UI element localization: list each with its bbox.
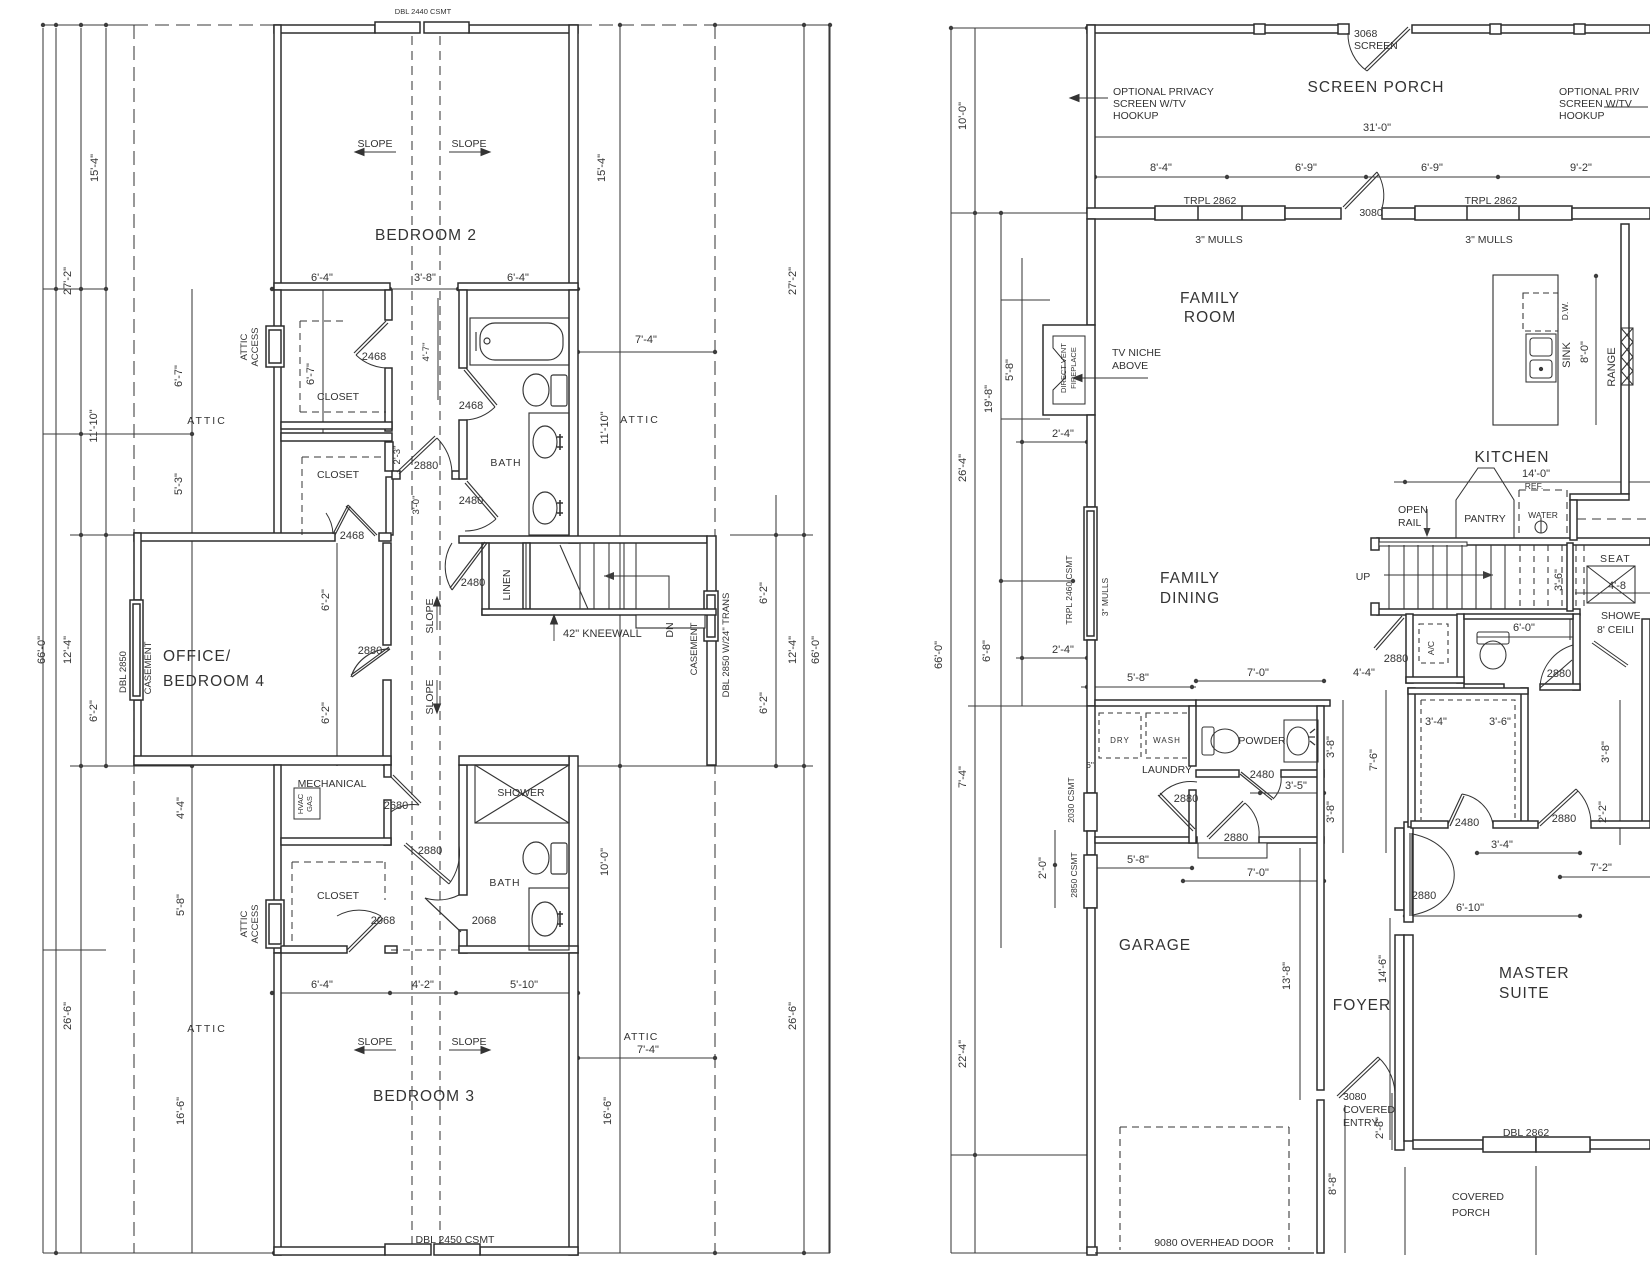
svg-text:26'-6": 26'-6" [62, 1002, 74, 1030]
dim line 4'-7" bath1 [437, 298, 439, 400]
porch posts [1254, 24, 1265, 34]
linen right wall [523, 543, 530, 609]
svg-text:HOOKUP: HOOKUP [1559, 110, 1605, 122]
DW dashed [1523, 293, 1558, 331]
svg-text:3'-4": 3'-4" [1425, 716, 1447, 728]
wall bath2 bottom [459, 946, 578, 953]
svg-text:LAUNDRY: LAUNDRY [1142, 764, 1192, 776]
dim line 27'-2"/26'-6" left [55, 28, 57, 1253]
door 3080 family [1343, 172, 1377, 207]
svg-text:PORCH: PORCH [1452, 1207, 1490, 1219]
row y137 31'-0" [1095, 136, 1650, 138]
door 2880 office right [351, 649, 390, 677]
row y993 bed3 dims [272, 992, 578, 994]
door 2468 closet1 leaf [356, 323, 388, 355]
master bath right wall [1642, 619, 1650, 822]
dim line R 19'-8/6'-8 [1000, 213, 1002, 948]
hall wall stub left [392, 471, 400, 479]
window DBL 2440 csmt bed2 top [375, 22, 420, 33]
svg-text:19'-8": 19'-8" [983, 385, 995, 413]
roof overhang dashed right [714, 25, 716, 1253]
svg-text:2468: 2468 [340, 530, 364, 542]
garage overhead door sill [1095, 1252, 1314, 1254]
wall bed2 right [569, 25, 578, 289]
open rail down arrow [1426, 509, 1428, 535]
hall lower dashed threshold [391, 949, 459, 951]
range [1621, 328, 1633, 385]
svg-text:12'-4": 12'-4" [62, 636, 74, 664]
shower bath2 [475, 765, 569, 823]
svg-text:TRPL 2862: TRPL 2862 [1184, 195, 1237, 207]
stair left cap R [1371, 538, 1379, 550]
svg-text:OPTIONAL PRIV: OPTIONAL PRIV [1559, 86, 1639, 98]
wall bed3 left [274, 953, 281, 1255]
garage slab dashed [1120, 1127, 1289, 1250]
svg-text:ACCESS: ACCESS [250, 904, 261, 943]
svg-text:GARAGE: GARAGE [1119, 937, 1191, 954]
LEFT PLAN FIXTURES [294, 318, 569, 950]
svg-text:SLOPE: SLOPE [424, 598, 436, 633]
door 2880 wc right [1540, 660, 1572, 688]
svg-text:5'-3": 5'-3" [173, 473, 185, 495]
svg-text:6'-4": 6'-4" [311, 979, 333, 991]
wall closet2 top [281, 433, 392, 441]
row y793 3'-5" [1250, 792, 1324, 794]
svg-text:2880: 2880 [414, 460, 438, 472]
porch left wall [1087, 25, 1095, 213]
kitchen right wall [1621, 224, 1629, 494]
A/C closet left wall [1406, 614, 1413, 683]
svg-text:6'-2": 6'-2" [758, 582, 770, 604]
vert dim 2'-8" [1391, 1093, 1393, 1150]
row y177 window dims [1095, 176, 1650, 178]
svg-text:2480: 2480 [459, 495, 483, 507]
svg-text:CLOSET: CLOSET [317, 890, 360, 902]
dim line 12'-4" left [80, 28, 82, 1253]
svg-text:8' CEILI: 8' CEILI [1597, 624, 1634, 636]
svg-text:4'-8: 4'-8 [1608, 580, 1626, 592]
svg-text:14'-6": 14'-6" [1377, 955, 1389, 983]
slope arrow bed2 right [449, 151, 490, 153]
svg-text:2'-3": 2'-3" [392, 446, 403, 465]
row y948 closet bottom [43, 949, 106, 951]
wic top wall [1408, 688, 1528, 694]
slope arrow bed3 right [449, 1049, 490, 1051]
svg-text:3'-6": 3'-6" [1553, 569, 1565, 591]
laundry appliances dashed [1099, 713, 1189, 758]
stair treads [525, 543, 527, 609]
row y853 3'-4" [1477, 852, 1580, 854]
svg-text:2068: 2068 [371, 915, 395, 927]
powder sink [1284, 720, 1318, 762]
svg-text:SLOPE: SLOPE [357, 1036, 392, 1048]
svg-text:10'-0": 10'-0" [599, 848, 611, 876]
kitchen island [1493, 275, 1558, 425]
dashed ceiling break line [1577, 518, 1650, 520]
svg-text:ATTIC: ATTIC [620, 414, 660, 426]
svg-text:A/C: A/C [1426, 641, 1436, 655]
open rail line [1379, 542, 1467, 546]
wall between windows [1087, 831, 1095, 855]
laundry door arc [1159, 782, 1197, 796]
svg-text:2880: 2880 [1174, 793, 1198, 805]
svg-text:3080: 3080 [1359, 207, 1383, 219]
attic access hatch upper [266, 326, 284, 367]
screen door 3068 [1367, 29, 1410, 71]
svg-text:OPTIONAL PRIVACY: OPTIONAL PRIVACY [1113, 86, 1214, 98]
svg-text:CLOSET: CLOSET [317, 391, 360, 403]
wall mech right lower [384, 800, 391, 845]
svg-text:16'-6": 16'-6" [175, 1097, 187, 1125]
slope arrow stair hall (rot) [436, 597, 438, 630]
dim line R 5'-8 [1021, 258, 1023, 706]
svg-text:DRY: DRY [1110, 736, 1130, 745]
svg-text:DBL 2850 W/24" TRANS: DBL 2850 W/24" TRANS [721, 593, 732, 698]
svg-text:RANGE: RANGE [1606, 347, 1618, 386]
svg-text:2030 CSMT: 2030 CSMT [1066, 777, 1076, 822]
master top wall seg2 [1493, 821, 1538, 828]
svg-text:4'-4": 4'-4" [1353, 667, 1375, 679]
foyer right wall mid [1395, 935, 1404, 1150]
HVAC GAS box [294, 788, 320, 819]
svg-text:2'-4": 2'-4" [1052, 644, 1074, 656]
wall office top right of door [379, 533, 391, 541]
garage left wall [1087, 908, 1095, 1253]
family room top wall seg3 [1382, 208, 1415, 219]
wic left wall [1408, 688, 1415, 827]
svg-text:5'-8": 5'-8" [1004, 359, 1016, 381]
svg-text:ABOVE: ABOVE [1112, 360, 1148, 372]
svg-text:4'-2": 4'-2" [412, 979, 434, 991]
wic dashed shelving [1421, 700, 1515, 820]
dim line 6'-2" right pair [775, 495, 777, 766]
row y766 office bottom level [70, 765, 192, 767]
svg-text:27'-2": 27'-2" [62, 267, 74, 295]
svg-text:6'-10": 6'-10" [1456, 902, 1484, 914]
door 2880 hall2 [404, 845, 449, 884]
LEFT PLAN WALLS [130, 22, 718, 1255]
row y877 7'-2" [1560, 876, 1650, 878]
family room left wall below fireplace [1087, 415, 1095, 507]
slope arrow office low (rot) [436, 680, 438, 713]
RIGHT PLAN fixtures [1099, 293, 1633, 1250]
garage top wall seg2 [1259, 837, 1324, 843]
hall wall stub right [452, 471, 460, 479]
wall closet1 bottom [281, 422, 392, 429]
row y681 7'-0" top [1196, 680, 1324, 682]
kitchen nook wall vert [1570, 500, 1577, 540]
svg-text:D.W.: D.W. [1560, 302, 1570, 320]
vert dim 14'-6" [1389, 918, 1391, 1140]
door 2880 to AC hall [1376, 618, 1404, 650]
svg-text:7'-6": 7'-6" [1368, 749, 1380, 771]
door 2880 foyer/master [1409, 833, 1411, 916]
dim line R outermost [828, 24, 830, 1253]
door 2880 master [1538, 789, 1576, 824]
svg-text:8'-8": 8'-8" [1327, 1173, 1339, 1195]
door 2468 closet2 leaf [333, 505, 348, 534]
row y706 laundry top level [968, 705, 1087, 707]
svg-text:15'-4": 15'-4" [596, 154, 608, 182]
row y289 bed2 bottom level [43, 288, 106, 290]
RIGHT PLAN WALLS [1043, 24, 1650, 1255]
svg-text:LINEN: LINEN [501, 570, 513, 601]
svg-text:2'-2": 2'-2" [1597, 801, 1609, 823]
svg-text:DBL 2850: DBL 2850 [118, 651, 129, 693]
svg-text:2480: 2480 [1455, 817, 1479, 829]
laundry/garage wall seg1 [1095, 837, 1197, 843]
svg-text:8'-4": 8'-4" [1150, 162, 1172, 174]
toilet bath1 [551, 375, 567, 406]
water heater dashed closet [1519, 490, 1567, 535]
svg-text:2068: 2068 [472, 915, 496, 927]
wall below window to laundry [1087, 640, 1095, 706]
svg-text:2880: 2880 [1224, 832, 1248, 844]
toilet powder [1202, 727, 1214, 755]
svg-text:FOYER: FOYER [1333, 997, 1391, 1014]
svg-text:SUITE: SUITE [1499, 985, 1550, 1002]
wc bottom wall segs [1464, 684, 1504, 690]
vert dim 3'-8"/2'-2" right [1619, 700, 1621, 845]
svg-text:3'-0": 3'-0" [411, 496, 422, 515]
row y434 closet level [43, 433, 134, 435]
window TRPL 2460 CSMT [1084, 507, 1097, 640]
svg-text:SLOPE: SLOPE [424, 679, 436, 714]
svg-text:7'-2": 7'-2" [1590, 862, 1612, 874]
svg-text:3'-8": 3'-8" [414, 272, 436, 284]
svg-text:7'-4": 7'-4" [637, 1044, 659, 1056]
RIGHT PLAN doors [1158, 27, 1591, 1098]
svg-text:6'-9": 6'-9" [1295, 162, 1317, 174]
svg-text:22'-4": 22'-4" [957, 1040, 969, 1068]
A/C closet right wall [1457, 614, 1464, 683]
RIGHT PLAN ticks [949, 26, 1598, 1157]
shower glass diag [1594, 641, 1628, 665]
svg-text:BATH: BATH [489, 877, 520, 889]
row y881 7'-0" bottom [1183, 880, 1324, 882]
wc/powder2 right wall [1573, 614, 1580, 690]
svg-text:RAIL: RAIL [1398, 517, 1422, 529]
master left wall [1404, 822, 1413, 922]
dim line 4'-8" seat [1575, 592, 1650, 594]
svg-text:OFFICE/: OFFICE/ [163, 648, 231, 665]
wall closet3 bottom [281, 946, 347, 953]
closet3 shelf dashes [292, 862, 385, 946]
family room top wall seg2 [1285, 208, 1341, 219]
svg-text:CASEMENT: CASEMENT [143, 641, 154, 694]
window TRPL 2862 left group [1155, 206, 1285, 220]
svg-text:BEDROOM 4: BEDROOM 4 [163, 673, 265, 690]
door 2068 bath2 [425, 898, 459, 930]
wall closet1 right lower [385, 368, 392, 431]
door 2680 mech [391, 777, 419, 805]
svg-text:2880: 2880 [1547, 668, 1571, 680]
svg-text:TV NICHE: TV NICHE [1112, 347, 1161, 359]
svg-text:6'-7": 6'-7" [173, 365, 185, 387]
LEFT PLAN TEXT [36, 7, 822, 1246]
wall closet left (upper) [274, 290, 281, 535]
LEFT PLAN closet dashed shelving [292, 321, 459, 950]
svg-text:7'-0": 7'-0" [1247, 667, 1269, 679]
powder/foyer left wall [1317, 706, 1324, 1090]
svg-text:3" MULLS: 3" MULLS [1465, 234, 1513, 246]
wall bed2 top left segment [274, 25, 375, 33]
family room top wall seg1 [1087, 208, 1155, 219]
dim line 66'-0" left [42, 28, 44, 1253]
svg-text:MASTER: MASTER [1499, 965, 1570, 982]
svg-text:5'-10": 5'-10" [510, 979, 538, 991]
door 2880 hall/bed2 leaf [399, 438, 437, 474]
svg-text:CLOSET: CLOSET [317, 469, 360, 481]
optional privacy arrow right [1604, 106, 1648, 108]
svg-text:14'-0": 14'-0" [1522, 468, 1550, 480]
svg-text:FAMILY: FAMILY [1180, 290, 1240, 307]
svg-text:BATH: BATH [490, 457, 521, 469]
tv niche arrow [1073, 377, 1148, 379]
svg-text:4'-7": 4'-7" [421, 343, 432, 362]
svg-text:TRPL 2862: TRPL 2862 [1465, 195, 1518, 207]
svg-text:REF.: REF. [1525, 481, 1543, 491]
DN arrow [604, 576, 669, 608]
svg-text:2880: 2880 [1384, 653, 1408, 665]
bottom row R [951, 1252, 1087, 1254]
dim line 15'-4"/10'-0" right of rooms [619, 25, 621, 1253]
window DBL 2862 master [1483, 1137, 1536, 1152]
vert dim 2'-0" [1054, 830, 1056, 908]
wall bath1 right [569, 290, 578, 543]
door 2480 wic [1448, 794, 1462, 824]
svg-text:16'-6": 16'-6" [602, 1097, 614, 1125]
stair bottom wall [482, 609, 716, 615]
wall hall/stair top [459, 536, 707, 543]
screen porch top wall left [1087, 25, 1348, 33]
svg-text:6": 6" [1086, 760, 1094, 770]
row y352 attic 7'-4" [578, 351, 715, 353]
slope arrow bed3 left [355, 1049, 396, 1051]
wall bed2 left [274, 25, 281, 289]
svg-text:3068: 3068 [1354, 28, 1378, 40]
svg-text:DIRECT VENT: DIRECT VENT [1059, 343, 1068, 393]
window DBL 2450 csmt bed3 [385, 1244, 431, 1255]
svg-text:ATTIC: ATTIC [624, 1031, 659, 1043]
svg-text:6'-2": 6'-2" [320, 589, 332, 611]
svg-text:26'-4": 26'-4" [957, 454, 969, 482]
foyer left wall lower (below door) [1317, 1100, 1324, 1253]
family room top wall seg4 [1572, 208, 1650, 219]
wall office bottom [134, 756, 391, 765]
svg-text:DBL 2440 CSMT: DBL 2440 CSMT [395, 7, 452, 16]
svg-text:13'-8": 13'-8" [1281, 962, 1293, 990]
svg-text:42" KNEEWALL: 42" KNEEWALL [563, 628, 642, 640]
LEFT PLAN STAIR TREADS [526, 543, 669, 609]
svg-text:FAMILY: FAMILY [1160, 570, 1220, 587]
svg-text:ACCESS: ACCESS [250, 327, 261, 366]
svg-text:SINK: SINK [1561, 342, 1573, 368]
optional privacy arrow left [1070, 97, 1108, 99]
svg-text:OPEN: OPEN [1398, 504, 1428, 516]
svg-text:6'-0": 6'-0" [1513, 622, 1535, 634]
wall closet1 right upper [385, 290, 392, 320]
closet1 shelf dashes [300, 321, 386, 412]
svg-text:5'-8": 5'-8" [175, 894, 187, 916]
svg-text:66'-0": 66'-0" [933, 641, 945, 669]
svg-text:2'-4": 2'-4" [1052, 428, 1074, 440]
svg-text:UP: UP [1356, 571, 1371, 583]
svg-text:GAS: GAS [305, 796, 314, 812]
svg-text:6'-7": 6'-7" [305, 363, 317, 385]
svg-text:9080 OVERHEAD DOOR: 9080 OVERHEAD DOOR [1154, 1237, 1274, 1249]
garage bottom wall corner [1087, 1247, 1097, 1255]
svg-text:SEAT: SEAT [1600, 553, 1631, 565]
row y535 hall level [70, 534, 134, 536]
master top wall seg1 [1411, 821, 1448, 828]
laundry right wall [1189, 706, 1196, 766]
screen porch top wall right [1412, 25, 1650, 33]
svg-text:BEDROOM 2: BEDROOM 2 [375, 227, 477, 244]
wall hall bottom left stub [385, 946, 397, 953]
powder bottom wall [1196, 770, 1239, 777]
svg-text:6'-2": 6'-2" [758, 692, 770, 714]
wic right wall [1521, 688, 1528, 827]
wall office left [134, 533, 141, 600]
svg-text:66'-0": 66'-0" [36, 636, 48, 664]
wall bath1 left mid [459, 420, 467, 479]
svg-text:2480: 2480 [1250, 769, 1274, 781]
closet2 shelf dashes [302, 457, 383, 535]
svg-text:27'-2": 27'-2" [787, 267, 799, 295]
row y916 6'-10" [1405, 915, 1580, 917]
window 2030 CSMT [1084, 793, 1097, 831]
svg-text:6'-2": 6'-2" [320, 702, 332, 724]
svg-text:BEDROOM 3: BEDROOM 3 [373, 1088, 475, 1105]
svg-text:10'-0": 10'-0" [957, 102, 969, 130]
RIGHT PLAN TEXT [933, 28, 1641, 1249]
wall bath2 top (office side) [459, 756, 569, 765]
svg-text:7'-4": 7'-4" [635, 334, 657, 346]
stair bottom wall R [1377, 609, 1580, 615]
svg-text:COVERED: COVERED [1452, 1191, 1504, 1203]
wall closet2 right upper [385, 442, 393, 471]
AC dashed box [1419, 624, 1448, 663]
svg-text:7'-4": 7'-4" [957, 766, 969, 788]
vert dim 8'-0" kitchen [1595, 276, 1597, 425]
svg-text:HOOKUP: HOOKUP [1113, 110, 1159, 122]
LEFT PLAN DOORS [326, 321, 498, 952]
pantry pentagon [1456, 468, 1514, 538]
dim line 6'-0" wc [1477, 636, 1573, 638]
svg-text:WATER: WATER [1528, 510, 1558, 520]
svg-text:PANTRY: PANTRY [1464, 513, 1506, 525]
A/C closet bottom [1406, 677, 1464, 683]
svg-text:3" MULLS: 3" MULLS [1195, 234, 1243, 246]
slope arrow bed2 left [355, 151, 396, 153]
toilet bath2 [551, 843, 567, 874]
fireplace box [1043, 325, 1095, 415]
svg-text:TRPL 2460 CSMT: TRPL 2460 CSMT [1064, 555, 1074, 624]
front door 3080 [1337, 1057, 1378, 1096]
svg-text:2'-8": 2'-8" [1374, 1117, 1386, 1139]
svg-text:DN: DN [664, 622, 676, 637]
wall mech/closet left [274, 765, 281, 953]
master top wall seg3 [1591, 821, 1650, 828]
svg-text:26'-6": 26'-6" [787, 1002, 799, 1030]
porch posts lines [1404, 1167, 1406, 1255]
bottom row [43, 1252, 280, 1254]
wall bed2 bottom left [274, 283, 390, 290]
row y868 5'-8" bottom [1087, 867, 1192, 869]
stair top wall R [1377, 538, 1650, 545]
wall bath2 left lower [459, 930, 467, 953]
